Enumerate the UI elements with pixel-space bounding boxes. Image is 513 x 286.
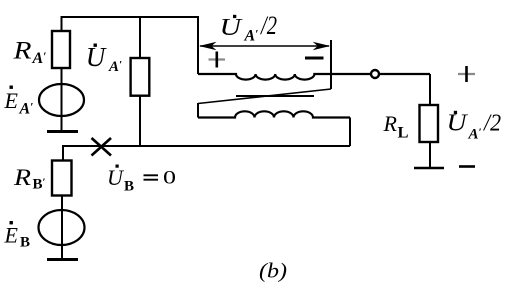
svg-text:R: R <box>12 38 31 65</box>
resistor RA' <box>52 31 70 68</box>
label UA'/2 right <box>447 111 502 143</box>
winding L2 (bottom, bumps up) <box>198 111 350 117</box>
label UB = 0 <box>107 165 176 195</box>
minus (load) <box>459 165 475 168</box>
label EB <box>4 221 31 251</box>
tick across diagonal <box>236 95 314 97</box>
wire bottom rail <box>63 145 350 147</box>
wire transformer left vertical <box>197 16 199 74</box>
wire RL drop <box>429 74 431 105</box>
fault X marker <box>92 138 112 156</box>
wire RL to ground <box>429 142 431 168</box>
svg-text:(b): (b) <box>259 259 287 283</box>
svg-text:B: B <box>20 235 30 251</box>
svg-text:R: R <box>13 165 31 190</box>
svg-text:U: U <box>107 165 125 190</box>
wire middle branch upper <box>139 16 141 58</box>
wire right vertical (arrow to diagonal) <box>330 40 332 89</box>
svg-text:E: E <box>4 88 19 113</box>
svg-text:U: U <box>447 111 469 137</box>
svg-text:/2: /2 <box>482 111 501 137</box>
resistor (UA' branch) <box>131 58 150 96</box>
plus (left of winding) <box>209 52 226 68</box>
diagonal wire (winding series link) <box>198 89 331 104</box>
plus (load) <box>458 66 475 82</box>
source EA' <box>39 84 84 116</box>
svg-text:L: L <box>398 125 409 142</box>
label UA' <box>86 42 122 75</box>
svg-text:R: R <box>383 111 398 136</box>
resistor RB' <box>52 161 72 196</box>
label RL <box>383 111 409 142</box>
wire right drop <box>349 118 351 147</box>
label UA'/2 top <box>220 11 278 45</box>
minus (right of winding) <box>305 57 324 60</box>
svg-text:/2: /2 <box>259 11 277 40</box>
wire B-branch through source <box>61 196 63 260</box>
label EA' <box>4 86 34 118</box>
svg-text:0: 0 <box>163 169 176 189</box>
svg-text:B: B <box>124 179 134 195</box>
winding L1 (top, bumps down) <box>198 74 430 80</box>
svg-text:E: E <box>4 223 19 248</box>
wire A-branch top stub <box>61 16 63 31</box>
wire B-branch top stub <box>62 145 64 161</box>
source EB <box>39 210 85 245</box>
wire left lower vertical <box>197 103 199 118</box>
resistor RL <box>420 105 439 142</box>
dimension arrow UA'/2 <box>199 42 330 50</box>
ground (EA') <box>47 130 78 133</box>
label RB' <box>13 165 46 193</box>
label RA' <box>12 38 46 68</box>
svg-text:U: U <box>220 15 244 41</box>
terminal circle <box>371 70 379 78</box>
wire middle branch lower <box>139 96 141 146</box>
ground (RL) <box>414 167 444 170</box>
ground (EB) <box>47 258 78 261</box>
wire top horizontal <box>62 16 199 18</box>
wire A-branch through source <box>61 68 63 131</box>
